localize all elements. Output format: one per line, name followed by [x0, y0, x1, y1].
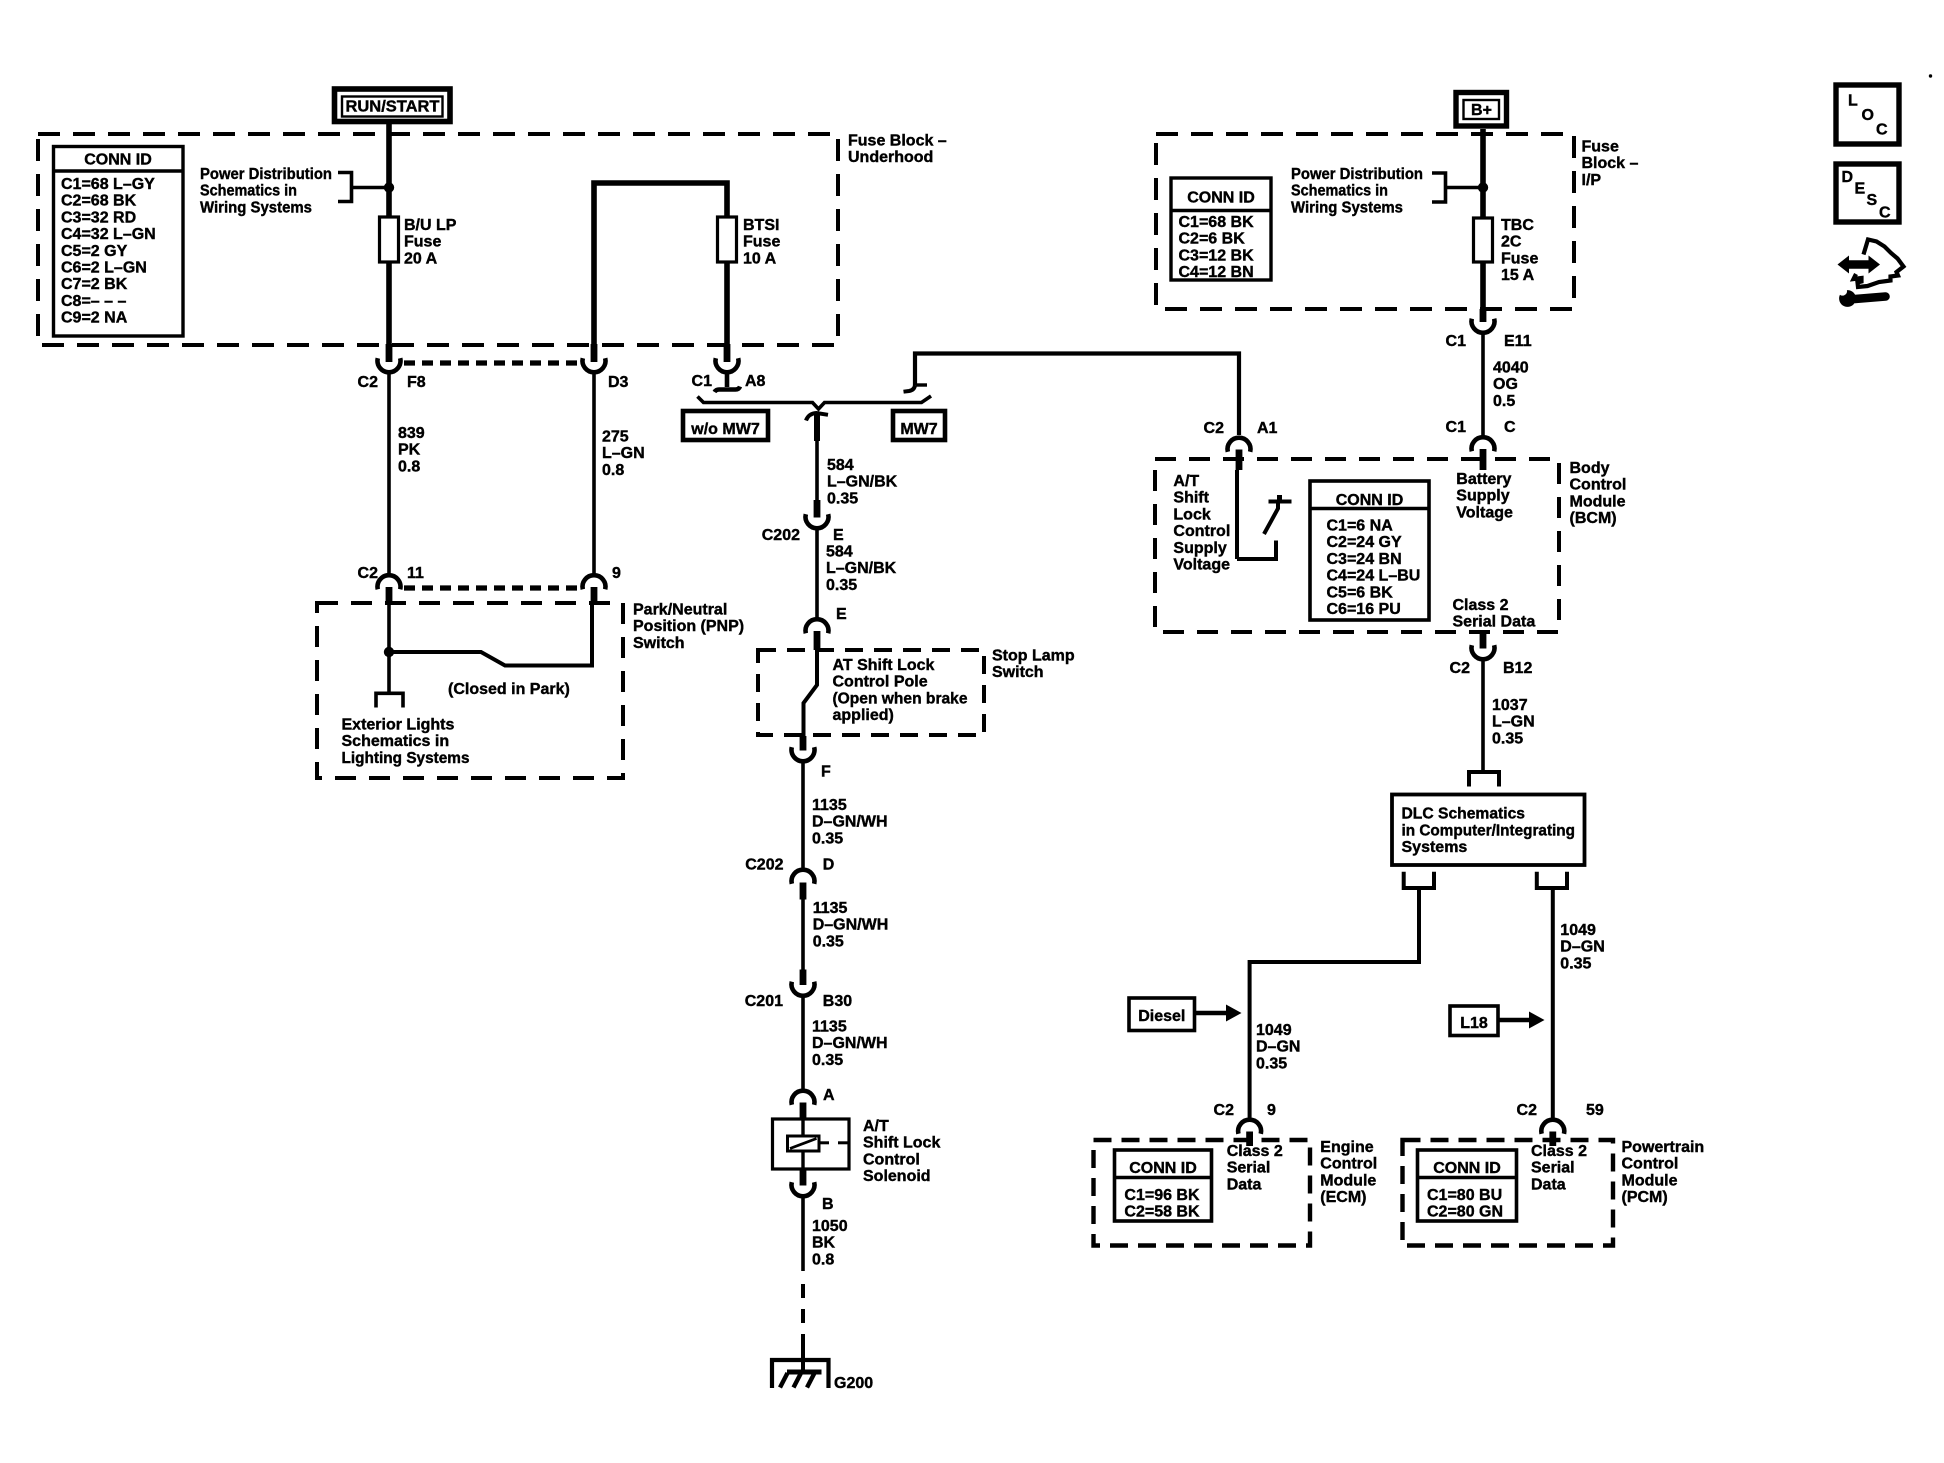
- svg-text:Lock: Lock: [1173, 506, 1210, 523]
- svg-text:D3: D3: [608, 374, 629, 391]
- option tag w/o MW7: [683, 411, 768, 440]
- svg-text:Body: Body: [1570, 460, 1610, 477]
- svg-text:(ECM): (ECM): [1320, 1189, 1366, 1206]
- connector C1 pin E11: [1446, 309, 1532, 350]
- svg-text:C: C: [1876, 122, 1888, 139]
- svg-text:D–GN/WH: D–GN/WH: [812, 1035, 888, 1052]
- svg-text:L–GN: L–GN: [1492, 714, 1535, 731]
- svg-text:Systems: Systems: [1402, 839, 1468, 856]
- svg-text:Schematics in: Schematics in: [342, 733, 450, 750]
- svg-text:C2=58 BK: C2=58 BK: [1124, 1204, 1200, 1221]
- svg-text:L18: L18: [1460, 1015, 1488, 1032]
- svg-text:C3=32 RD: C3=32 RD: [61, 209, 136, 226]
- svg-text:(Closed in Park): (Closed in Park): [448, 681, 570, 698]
- wire 275 L-GN 0.8: [594, 372, 645, 575]
- svg-text:Serial: Serial: [1531, 1160, 1575, 1177]
- svg-text:Data: Data: [1531, 1176, 1566, 1193]
- svg-text:L–GN/BK: L–GN/BK: [827, 474, 898, 491]
- svg-text:Block –: Block –: [1582, 155, 1639, 172]
- svg-text:Solenoid: Solenoid: [863, 1168, 931, 1185]
- svg-text:0.8: 0.8: [812, 1251, 834, 1268]
- svg-text:Fuse: Fuse: [1501, 250, 1538, 267]
- connector C2 pin B12: [1450, 632, 1533, 677]
- svg-text:Position (PNP): Position (PNP): [633, 618, 744, 635]
- wire below B/U LP fuse: [386, 262, 392, 344]
- svg-text:C2: C2: [1204, 420, 1225, 437]
- note (Closed in Park): [448, 681, 570, 698]
- svg-text:C1=68 BK: C1=68 BK: [1179, 214, 1255, 231]
- wire RUN/START feed: [386, 124, 392, 217]
- svg-text:E: E: [833, 527, 844, 544]
- label Class 2 Serial Data (PCM): [1531, 1143, 1587, 1193]
- svg-text:1135: 1135: [813, 900, 848, 917]
- svg-text:Power Distribution: Power Distribution: [200, 166, 332, 183]
- svg-text:CONN ID: CONN ID: [1336, 492, 1404, 509]
- BCM dashed box: [1155, 459, 1559, 632]
- svg-text:15 A: 15 A: [1501, 267, 1535, 284]
- connector pin F: [792, 736, 832, 781]
- svg-text:C201: C201: [745, 993, 783, 1010]
- bracket from note to B+ wire: [1432, 173, 1483, 202]
- option tag Diesel with arrow: [1129, 998, 1242, 1031]
- svg-text:Control: Control: [1173, 523, 1230, 540]
- svg-text:C: C: [1879, 205, 1891, 222]
- power tag B+: [1456, 93, 1507, 127]
- svg-text:Wiring Systems: Wiring Systems: [1291, 199, 1403, 216]
- svg-text:0.35: 0.35: [812, 1052, 843, 1069]
- svg-text:L: L: [1848, 93, 1858, 110]
- svg-text:C2=68 BK: C2=68 BK: [61, 193, 137, 210]
- svg-text:OG: OG: [1493, 376, 1518, 393]
- CONN ID table (PCM): [1418, 1150, 1517, 1221]
- MW7 branch wire from BCM: [904, 354, 1240, 436]
- svg-text:1037: 1037: [1492, 697, 1528, 714]
- svg-text:59: 59: [1586, 1102, 1604, 1119]
- wire 584 L-GN/BK 0.35 (lower): [817, 528, 897, 620]
- svg-text:C6=2 L–GN: C6=2 L–GN: [61, 260, 147, 277]
- fork into DLC box: [1469, 772, 1499, 787]
- wire below BTSI fuse: [724, 262, 730, 344]
- wire 4040 OG 0.5: [1483, 332, 1529, 437]
- stop lamp switch blade: [804, 650, 818, 736]
- option tag L18 with arrow: [1450, 1006, 1545, 1036]
- svg-text:0.8: 0.8: [398, 458, 420, 475]
- svg-text:A/T: A/T: [1173, 473, 1199, 490]
- svg-text:0.35: 0.35: [1492, 730, 1523, 747]
- svg-text:Supply: Supply: [1456, 488, 1509, 505]
- PNP input wire pin 11: [387, 604, 391, 652]
- svg-text:applied): applied): [833, 707, 894, 724]
- svg-text:20 A: 20 A: [404, 250, 438, 267]
- wire 1037 L-GN 0.35: [1483, 659, 1535, 772]
- svg-text:O: O: [1862, 107, 1874, 124]
- svg-text:in Computer/Integrating: in Computer/Integrating: [1402, 822, 1576, 839]
- svg-text:C1: C1: [1446, 419, 1467, 436]
- svg-text:C8=– – –: C8=– – –: [61, 293, 126, 310]
- svg-text:C4=12 BN: C4=12 BN: [1179, 264, 1254, 281]
- label Class 2 Serial Data (ECM): [1227, 1143, 1283, 1193]
- label Battery Supply Voltage: [1456, 471, 1513, 521]
- svg-text:I/P: I/P: [1582, 172, 1602, 189]
- fuse block I/P dashed box: [1156, 134, 1639, 309]
- svg-text:(Open when brake: (Open when brake: [833, 690, 968, 707]
- svg-text:1050: 1050: [812, 1218, 848, 1235]
- svg-text:584: 584: [827, 457, 854, 474]
- svg-text:S: S: [1867, 192, 1878, 209]
- connector pin E (stop lamp switch): [806, 606, 848, 650]
- svg-text:0.35: 0.35: [812, 830, 843, 847]
- svg-text:C4=24 L–BU: C4=24 L–BU: [1327, 568, 1421, 585]
- svg-text:DLC Schematics: DLC Schematics: [1402, 806, 1526, 823]
- svg-text:C1: C1: [692, 373, 713, 390]
- svg-text:C2: C2: [1450, 660, 1471, 677]
- icon LOC button: [1836, 85, 1899, 144]
- svg-text:BK: BK: [812, 1235, 836, 1252]
- svg-text:Engine: Engine: [1320, 1139, 1373, 1156]
- wire 1135 D-GN/WH 0.35 (1): [803, 761, 888, 870]
- svg-text:C2: C2: [358, 374, 379, 391]
- svg-text:Control: Control: [1570, 477, 1627, 494]
- wire 584 L-GN/BK 0.35 (upper): [817, 441, 898, 507]
- wire 1049 D-GN 0.35 (to PCM): [1553, 888, 1605, 1120]
- svg-text:B30: B30: [823, 993, 852, 1010]
- svg-text:C1=96 BK: C1=96 BK: [1124, 1187, 1200, 1204]
- svg-text:C1=80 BU: C1=80 BU: [1427, 1187, 1502, 1204]
- svg-text:584: 584: [826, 544, 853, 561]
- svg-text:MW7: MW7: [900, 421, 937, 438]
- svg-text:Switch: Switch: [992, 664, 1044, 681]
- svg-text:Class 2: Class 2: [1227, 1143, 1283, 1160]
- svg-text:Voltage: Voltage: [1456, 504, 1513, 521]
- svg-text:Voltage: Voltage: [1173, 557, 1230, 574]
- svg-text:0.35: 0.35: [826, 577, 857, 594]
- svg-text:C2: C2: [358, 565, 379, 582]
- svg-text:C1: C1: [1446, 333, 1467, 350]
- svg-text:C: C: [1504, 419, 1516, 436]
- connector C2 pin A1: [1204, 420, 1278, 470]
- connector C2 pin F8: [358, 344, 426, 391]
- junction dot: [384, 182, 394, 192]
- wire to exterior lights fork: [387, 652, 391, 692]
- svg-text:C202: C202: [745, 857, 783, 874]
- svg-text:Class 2: Class 2: [1453, 597, 1509, 614]
- svg-text:9: 9: [612, 565, 621, 582]
- svg-text:Diesel: Diesel: [1138, 1008, 1185, 1025]
- junction dot (B+ wire): [1478, 182, 1488, 192]
- svg-text:2C: 2C: [1501, 234, 1522, 251]
- svg-text:Fuse Block –: Fuse Block –: [848, 133, 947, 150]
- connector pin 9: [583, 565, 622, 605]
- svg-text:C9=2 NA: C9=2 NA: [61, 310, 128, 327]
- connector C202 pin E: [762, 500, 844, 544]
- bracket from note to RUN/START wire: [338, 173, 389, 202]
- svg-text:PK: PK: [398, 442, 421, 459]
- connector C201 pin B30: [745, 970, 853, 1011]
- svg-text:Powertrain: Powertrain: [1622, 1139, 1705, 1156]
- dotted connector line C2 (bottom): [404, 585, 580, 590]
- svg-text:Switch: Switch: [633, 635, 685, 652]
- svg-text:D–GN: D–GN: [1560, 939, 1604, 956]
- note: Power Distribution Schematics in Wiring Systems (right): [1291, 166, 1423, 216]
- fuse BTSI 10 A: [718, 217, 781, 267]
- connector pin D3: [583, 344, 629, 391]
- connector pin B: [792, 1169, 834, 1213]
- svg-text:D: D: [1842, 169, 1854, 186]
- svg-text:Schematics in: Schematics in: [1291, 183, 1388, 200]
- wire bridge to BTSI fuse (via D3): [594, 183, 727, 345]
- fuse B/U LP 20 A: [380, 217, 457, 267]
- icon navigate (double arrow, outline arrow, wrench): [1838, 240, 1904, 307]
- svg-text:BTSI: BTSI: [743, 217, 779, 234]
- fuse TBC 2C 15 A: [1474, 217, 1539, 284]
- stray scan speck: [1929, 74, 1932, 77]
- connector C202 pin D: [745, 857, 834, 900]
- dotted connector line C2 (top): [404, 360, 580, 365]
- svg-text:Supply: Supply: [1173, 540, 1226, 557]
- PCM dashed box: [1403, 1140, 1614, 1246]
- wire below TBC fuse: [1480, 262, 1486, 309]
- svg-text:Control: Control: [863, 1151, 920, 1168]
- off-page fork to exterior lights: [376, 693, 403, 707]
- stop lamp switch dashed box: [758, 648, 1075, 736]
- svg-text:L–GN: L–GN: [602, 445, 645, 462]
- fuse block underhood dashed box: [38, 133, 947, 346]
- svg-text:D–GN: D–GN: [1256, 1039, 1300, 1056]
- svg-text:C7=2 BK: C7=2 BK: [61, 276, 128, 293]
- svg-text:0.35: 0.35: [827, 490, 858, 507]
- stop lamp switch pole text: [833, 657, 968, 724]
- label Class 2 Serial Data (BCM): [1453, 597, 1536, 631]
- svg-text:1135: 1135: [812, 1019, 847, 1036]
- svg-text:10 A: 10 A: [743, 250, 777, 267]
- svg-text:Module: Module: [1570, 493, 1626, 510]
- svg-text:CONN ID: CONN ID: [84, 152, 152, 169]
- svg-text:D: D: [823, 857, 835, 874]
- svg-text:C3=12 BK: C3=12 BK: [1179, 247, 1255, 264]
- ground G200: [772, 1347, 873, 1392]
- svg-text:Module: Module: [1320, 1172, 1376, 1189]
- svg-text:D–GN/WH: D–GN/WH: [812, 814, 888, 831]
- svg-text:275: 275: [602, 429, 629, 446]
- wire B+ feed: [1480, 129, 1486, 218]
- wire 839 PK 0.8: [389, 372, 425, 575]
- svg-text:C6=16 PU: C6=16 PU: [1327, 601, 1401, 618]
- svg-text:Shift Lock: Shift Lock: [863, 1135, 940, 1152]
- CONN ID table (ECM): [1115, 1150, 1212, 1221]
- svg-text:AT Shift Lock: AT Shift Lock: [833, 657, 935, 674]
- svg-text:Stop Lamp: Stop Lamp: [992, 648, 1075, 665]
- svg-text:G200: G200: [834, 1375, 873, 1392]
- svg-text:Control: Control: [1622, 1156, 1679, 1173]
- merge hook / splice: [806, 413, 828, 442]
- A/T shift lock control solenoid: [773, 1118, 941, 1185]
- svg-text:Control Pole: Control Pole: [833, 674, 928, 691]
- svg-text:Fuse: Fuse: [1582, 139, 1619, 156]
- svg-text:0.8: 0.8: [602, 462, 624, 479]
- svg-text:Serial: Serial: [1227, 1160, 1271, 1177]
- svg-text:Data: Data: [1227, 1176, 1262, 1193]
- svg-text:C5=2 GY: C5=2 GY: [61, 243, 128, 260]
- svg-text:A/T: A/T: [863, 1118, 889, 1135]
- svg-text:C2=80 GN: C2=80 GN: [1427, 1204, 1503, 1221]
- fork DLC output left: [1404, 872, 1434, 888]
- PNP junction dot: [384, 647, 394, 657]
- connector C1 pin C: [1446, 419, 1516, 470]
- svg-text:(PCM): (PCM): [1622, 1189, 1668, 1206]
- svg-text:9: 9: [1267, 1102, 1276, 1119]
- svg-text:w/o MW7: w/o MW7: [690, 421, 760, 438]
- CONN ID table (BCM): [1310, 481, 1429, 620]
- svg-text:B/U LP: B/U LP: [404, 217, 457, 234]
- svg-text:B12: B12: [1503, 660, 1532, 677]
- svg-text:Fuse: Fuse: [404, 234, 441, 251]
- svg-text:Schematics in: Schematics in: [200, 183, 297, 200]
- svg-text:C2: C2: [1517, 1102, 1538, 1119]
- CONN ID table (underhood fuse block): [54, 147, 184, 337]
- svg-text:A1: A1: [1257, 420, 1278, 437]
- svg-text:A: A: [823, 1087, 835, 1104]
- svg-text:F8: F8: [407, 374, 426, 391]
- label A/T Shift Lock Control Supply Voltage: [1173, 473, 1230, 574]
- svg-text:L–GN/BK: L–GN/BK: [826, 560, 897, 577]
- wire 1049 D-GN 0.35 (to ECM): [1250, 888, 1419, 1120]
- svg-text:Fuse: Fuse: [743, 234, 780, 251]
- svg-text:C1=68 L–GY: C1=68 L–GY: [61, 176, 155, 193]
- svg-text:CONN ID: CONN ID: [1433, 1160, 1501, 1177]
- svg-text:Wiring Systems: Wiring Systems: [200, 199, 312, 216]
- dashed wire to ground: [801, 1284, 805, 1350]
- svg-text:RUN/START: RUN/START: [346, 99, 440, 116]
- note Exterior Lights Schematics in Lighting Systems: [342, 717, 470, 767]
- note: Power Distribution Schematics in Wiring Systems (left): [200, 166, 332, 216]
- label Engine Control Module (ECM): [1320, 1139, 1377, 1206]
- svg-text:CONN ID: CONN ID: [1129, 1160, 1197, 1177]
- svg-text:C2=6 BK: C2=6 BK: [1179, 231, 1246, 248]
- svg-text:A8: A8: [745, 373, 766, 390]
- svg-text:C2=24 GY: C2=24 GY: [1327, 534, 1402, 551]
- svg-text:0.5: 0.5: [1493, 393, 1515, 410]
- svg-text:(BCM): (BCM): [1570, 510, 1617, 527]
- wire 1050 BK 0.8: [803, 1196, 848, 1271]
- svg-text:Exterior Lights: Exterior Lights: [342, 717, 455, 734]
- svg-text:1135: 1135: [812, 797, 847, 814]
- svg-text:Battery: Battery: [1456, 471, 1511, 488]
- connector pin A (solenoid): [792, 1087, 836, 1119]
- svg-text:C5=6 BK: C5=6 BK: [1327, 584, 1394, 601]
- svg-text:0.35: 0.35: [1560, 955, 1591, 972]
- svg-text:Park/Neutral: Park/Neutral: [633, 601, 727, 618]
- merge brace w/o MW7 + MW7: [698, 396, 932, 409]
- svg-text:F: F: [821, 764, 831, 781]
- svg-text:0.35: 0.35: [1256, 1055, 1287, 1072]
- svg-text:C202: C202: [762, 527, 800, 544]
- icon DESC button: [1836, 164, 1899, 222]
- svg-text:Serial Data: Serial Data: [1453, 614, 1536, 631]
- svg-text:1049: 1049: [1256, 1022, 1292, 1039]
- svg-text:C1=6 NA: C1=6 NA: [1327, 518, 1394, 535]
- svg-text:1049: 1049: [1560, 922, 1596, 939]
- svg-text:Lighting Systems: Lighting Systems: [342, 750, 470, 767]
- svg-text:E11: E11: [1504, 333, 1532, 350]
- svg-text:Shift: Shift: [1173, 490, 1209, 507]
- fork DLC output right: [1537, 872, 1567, 888]
- connector C2 pin 11: [358, 565, 424, 605]
- label Body Control Module (BCM): [1570, 460, 1627, 527]
- connector C1 pin A8 (inline Y): [692, 344, 766, 392]
- svg-text:Underhood: Underhood: [848, 149, 933, 166]
- CONN ID table (I/P fuse block): [1171, 178, 1271, 281]
- PNP switch blade (closed in park): [389, 604, 592, 666]
- svg-text:Module: Module: [1622, 1172, 1678, 1189]
- svg-text:0.35: 0.35: [813, 933, 844, 950]
- wire 1135 D-GN/WH 0.35 (2): [803, 899, 888, 970]
- connector C2 pin 59 (PCM): [1517, 1102, 1604, 1146]
- BCM internal switch (A/T shift lock control): [1237, 470, 1292, 559]
- label Powertrain Control Module (PCM): [1622, 1139, 1705, 1206]
- svg-text:D–GN/WH: D–GN/WH: [813, 917, 889, 934]
- svg-text:Power Distribution: Power Distribution: [1291, 166, 1423, 183]
- svg-text:C3=24 BN: C3=24 BN: [1327, 551, 1402, 568]
- svg-text:C4=32 L–GN: C4=32 L–GN: [61, 226, 156, 243]
- PNP switch dashed box: [317, 601, 744, 778]
- connector C2 pin 9 (ECM): [1214, 1102, 1276, 1146]
- ECM dashed box: [1094, 1140, 1311, 1246]
- svg-text:C2: C2: [1214, 1102, 1235, 1119]
- wire 1135 D-GN/WH 0.35 (3): [803, 996, 888, 1092]
- svg-text:B+: B+: [1471, 102, 1492, 119]
- svg-text:E: E: [1855, 181, 1866, 198]
- svg-text:Control: Control: [1320, 1156, 1377, 1173]
- svg-text:839: 839: [398, 425, 425, 442]
- power tag RUN/START: [335, 89, 451, 122]
- svg-text:TBC: TBC: [1501, 217, 1534, 234]
- option tag MW7: [893, 411, 945, 440]
- svg-text:11: 11: [407, 565, 424, 582]
- svg-text:CONN ID: CONN ID: [1187, 190, 1255, 207]
- DLC schematics box: [1392, 795, 1585, 866]
- svg-text:B: B: [822, 1196, 834, 1213]
- svg-text:E: E: [836, 606, 847, 623]
- svg-text:4040: 4040: [1493, 360, 1529, 377]
- svg-text:Class 2: Class 2: [1531, 1143, 1587, 1160]
